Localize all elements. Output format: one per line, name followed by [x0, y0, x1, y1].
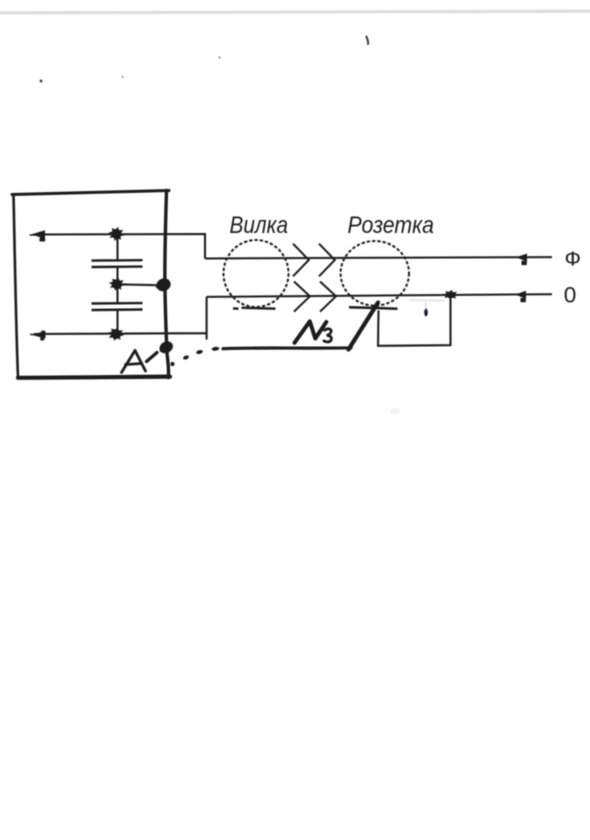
scan artifact: faint smudge — [390, 408, 400, 414]
wire: middle tap to right edge — [118, 283, 159, 286]
tick after A — [147, 353, 158, 362]
wire: bottom line from arrow through box, corner up to plug — [34, 297, 207, 340]
wire: loop from socket earthing bar down right to zero line — [378, 299, 451, 346]
scan artifact: small comma mark top center — [366, 37, 368, 45]
node blob: middle tap joins right edge — [154, 276, 172, 293]
handwritten label A — [122, 351, 146, 373]
bar under plug — [233, 308, 276, 309]
scan artifact: speck — [121, 76, 123, 78]
arrow (left) on zero line — [515, 291, 526, 302]
svg-text:Розетка: Розетка — [348, 212, 435, 239]
arrow (left) on top wire — [30, 230, 46, 241]
wire: diagonal to socket earthing bar — [349, 303, 379, 350]
svg-text:Вилка: Вилка — [230, 212, 289, 239]
bar under socket (earthing contact) — [349, 307, 398, 308]
wire: top line from arrow through box to plug — [33, 234, 205, 259]
connector chevrons top pair — [293, 244, 335, 277]
junction (top of bus) — [108, 227, 124, 241]
connector chevrons bottom pair — [294, 282, 336, 312]
scan artifact: speck left — [40, 80, 43, 83]
node A blob on right edge — [157, 339, 175, 355]
dash-dot trail from node A — [170, 346, 219, 366]
socket circle (Розетка) — [341, 241, 409, 306]
wire: long top line through plug and socket to phase terminal — [205, 257, 552, 258]
capacitor C2 (lower) — [92, 303, 143, 310]
junction (middle of bus) — [109, 277, 125, 290]
svg-text:0: 0 — [564, 283, 577, 308]
wire: vertical bus inside box — [116, 235, 118, 335]
arrow (left) on phase line — [516, 254, 527, 266]
wire: neutral protective line (hand-drawn) — [223, 346, 351, 350]
plug circle (Вилка) — [224, 240, 289, 307]
scan artifact: ink drip below zero loop — [424, 302, 428, 316]
junction (bottom of bus) — [108, 327, 124, 341]
enclosure box (device outline) — [12, 191, 170, 378]
scan artifact: faint grey line across top — [0, 11, 590, 13]
junction on zero line — [443, 290, 459, 300]
wire: long bottom line through plug and socket to zero terminal — [207, 294, 552, 297]
scan artifact: ghost echo under zero line — [409, 299, 444, 302]
scan artifact: speck — [218, 56, 220, 58]
handwritten label N3 — [295, 321, 332, 343]
capacitor C1 (upper) — [92, 260, 143, 267]
svg-text:Ф: Ф — [565, 249, 582, 271]
arrow (left) on bottom wire — [30, 331, 46, 341]
